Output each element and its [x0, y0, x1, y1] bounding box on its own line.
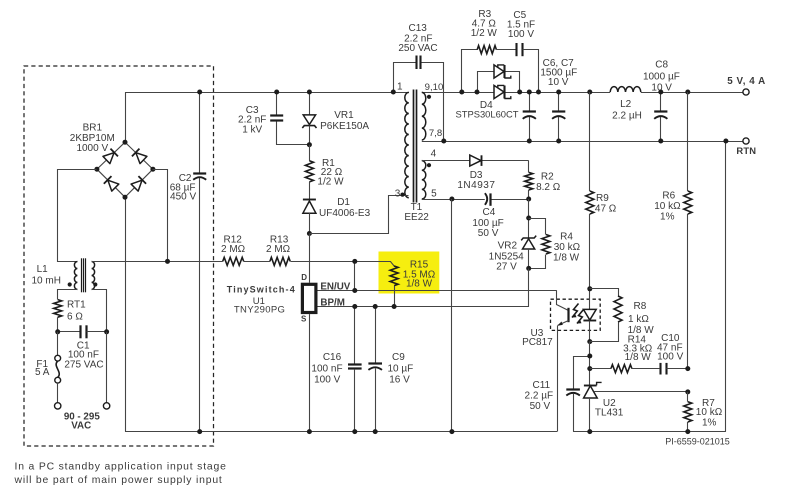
node pin5 return bottom: [449, 429, 454, 434]
svg-text:TL431: TL431: [595, 408, 624, 419]
svg-text:TNY290PG: TNY290PG: [234, 304, 285, 315]
node C8 top: [658, 90, 663, 95]
wire primary top rail: [125, 92, 409, 94]
node C10 right: [685, 366, 690, 371]
svg-text:RT1: RT1: [67, 300, 86, 311]
polarity dots L1: [68, 282, 98, 286]
wire pin5 line: [422, 199, 485, 201]
svg-text:16 V: 16 V: [389, 375, 410, 386]
terminal AC input left: [55, 403, 61, 409]
node VR2 top: [526, 216, 531, 221]
resistor R8: [590, 289, 619, 297]
capacitor C5: [496, 49, 515, 51]
node bridge corners: [94, 140, 155, 200]
transformer T1 secondary winding 4-5: [422, 161, 426, 199]
svg-text:10 µF: 10 µF: [388, 363, 414, 374]
node R14 tee: [587, 366, 592, 371]
svg-text:275 VAC: 275 VAC: [64, 359, 103, 370]
svg-text:PI-6559-021015: PI-6559-021015: [665, 436, 730, 446]
capacitor C9: [375, 307, 377, 364]
terminal 5V output: [743, 89, 749, 95]
node R9 top: [587, 90, 592, 95]
bridge diode upper-right: [132, 149, 147, 164]
node snubber right: [536, 90, 541, 95]
svg-text:8.2 Ω: 8.2 Ω: [536, 182, 561, 193]
dashed box input stage: [24, 66, 214, 446]
svg-text:30 kΩ: 30 kΩ: [554, 242, 581, 253]
bridge diode lower-left: [104, 176, 119, 191]
svg-text:2.2 µF: 2.2 µF: [525, 391, 554, 402]
transformer T1 primary winding: [405, 92, 409, 197]
svg-text:450 V: 450 V: [170, 192, 196, 203]
node C8 bottom: [658, 139, 663, 144]
node R6 top: [685, 90, 690, 95]
resistor R1: [309, 145, 311, 161]
node C6 top: [527, 90, 532, 95]
capacitor C11 branch: [574, 357, 590, 389]
svg-text:1 kΩ: 1 kΩ: [628, 314, 649, 325]
node LED top: [587, 286, 592, 291]
polarity dot pin9,10: [427, 95, 431, 99]
svg-text:7,8: 7,8: [429, 128, 442, 139]
svg-text:5: 5: [431, 188, 437, 199]
svg-text:2.2 µH: 2.2 µH: [612, 111, 642, 122]
resistor RT1: [54, 300, 62, 318]
svg-text:47 Ω: 47 Ω: [595, 203, 617, 214]
svg-text:STPS30L60CT: STPS30L60CT: [455, 109, 518, 120]
polarity dot pin3: [400, 193, 404, 197]
node C6 bottom: [527, 139, 532, 144]
svg-text:L1: L1: [37, 264, 49, 275]
node C7 top: [556, 90, 561, 95]
bridge BR1 diamond: [97, 142, 153, 197]
svg-text:2 MΩ: 2 MΩ: [221, 244, 246, 255]
inductor L2: [610, 87, 641, 92]
capacitor C4: [485, 193, 487, 205]
svg-text:4: 4: [431, 148, 437, 159]
capacitor C2: [199, 92, 201, 173]
svg-text:1000 µF: 1000 µF: [643, 71, 680, 82]
node C9: [373, 304, 378, 434]
node D4 anode: [475, 90, 480, 95]
capacitor C1: [58, 331, 80, 333]
diode D1: [303, 199, 316, 201]
node R7 bottom: [685, 429, 690, 434]
wire RT1 to C1 node: [57, 317, 59, 332]
node D1 bottom / pin3 junction: [307, 231, 312, 236]
svg-text:C8: C8: [655, 60, 668, 71]
node sense/EN-UV: [352, 259, 357, 293]
ic U1 TinySwitch-4: [302, 284, 316, 312]
bridge diode lower-right: [131, 176, 146, 191]
svg-text:5 A: 5 A: [35, 367, 50, 378]
svg-text:C11: C11: [532, 380, 550, 391]
wire sense line segments: [168, 261, 223, 263]
wire opto emitter to primary ground: [557, 326, 559, 432]
wire 5V rail left of L2: [422, 92, 610, 94]
svg-text:1 kV: 1 kV: [242, 125, 262, 136]
shunt regulator U2 TL431: [584, 385, 597, 387]
svg-text:VR2: VR2: [498, 241, 518, 252]
capacitor C7: [558, 92, 560, 111]
svg-text:UF4006-E3: UF4006-E3: [319, 208, 371, 219]
svg-text:D: D: [301, 273, 307, 282]
wire 5V rail right of L2: [641, 92, 743, 94]
svg-text:1000 V: 1000 V: [76, 143, 108, 154]
wire bridge left to L1: [58, 170, 97, 262]
inductor L1 core: [81, 258, 83, 292]
inductor L1 left winding: [74, 262, 77, 290]
wire TL431 ref line: [594, 391, 688, 393]
node pin1/C13: [391, 90, 396, 95]
wire bridge right to sense node: [153, 170, 168, 262]
node U1 source ground: [307, 429, 312, 434]
node ref junction: [685, 389, 690, 394]
svg-text:1%: 1%: [702, 418, 717, 429]
highlight box on R15: [379, 252, 440, 294]
svg-text:R6: R6: [662, 190, 675, 201]
svg-text:EE22: EE22: [404, 212, 429, 223]
opto light arrows: [572, 304, 579, 318]
transformer T1 secondary winding 9,10-7,8: [422, 92, 426, 140]
svg-text:VAC: VAC: [71, 420, 91, 431]
transformer T1 core: [413, 90, 415, 203]
bridge diode upper-left: [103, 149, 118, 164]
svg-text:C16: C16: [323, 352, 342, 363]
wire pin5 return to primary ground: [451, 199, 453, 432]
node C2 top: [197, 90, 202, 95]
svg-text:1/2 W: 1/2 W: [471, 28, 498, 39]
node C7 bottom: [556, 139, 561, 144]
resistor R7: [687, 392, 689, 402]
wire EN/UV to sense vertical: [354, 261, 356, 290]
node C2 bottom: [197, 429, 202, 434]
opto LED: [589, 289, 591, 309]
node pin5/C4 junctions: [449, 197, 531, 202]
resistor R13: [270, 257, 290, 265]
terminal RTN: [743, 138, 749, 144]
svg-text:1N4937: 1N4937: [457, 180, 495, 191]
node VR1/C3 junction: [307, 142, 312, 147]
node sense line left: [165, 259, 170, 264]
wire pin4 line: [422, 160, 470, 162]
svg-text:100 V: 100 V: [657, 351, 683, 362]
svg-text:BP/M: BP/M: [320, 298, 345, 309]
wire RTN down branch: [725, 141, 727, 432]
wire bridge bottom to ground: [125, 197, 127, 431]
svg-text:R8: R8: [634, 301, 647, 312]
wire RTN rail: [422, 141, 743, 143]
svg-text:P6KE150A: P6KE150A: [320, 121, 369, 132]
resistor R9: [589, 92, 591, 191]
svg-text:will be part of main power sup: will be part of main power supply input: [14, 475, 223, 486]
svg-text:C9: C9: [392, 352, 405, 363]
svg-text:9,10: 9,10: [425, 82, 444, 93]
wire L1 left bottom to RT1: [58, 290, 78, 300]
svg-text:2 MΩ: 2 MΩ: [266, 244, 291, 255]
wire D1 junction to U1 drain: [309, 234, 311, 283]
node RTN branch: [723, 139, 728, 144]
diode D3: [470, 155, 481, 166]
capacitor C6: [529, 92, 531, 111]
TVS VR1: [309, 92, 311, 115]
node C13 to RTN: [441, 139, 446, 144]
node TL431 anode ground: [587, 429, 592, 434]
svg-text:250 VAC: 250 VAC: [398, 43, 437, 54]
svg-text:100 V: 100 V: [508, 29, 534, 40]
resistor R14: [590, 368, 611, 370]
svg-text:10 mH: 10 mH: [31, 275, 60, 286]
node snubber left: [459, 90, 464, 95]
node C16: [352, 304, 357, 434]
svg-text:10 kΩ: 10 kΩ: [654, 201, 681, 212]
svg-text:VR1: VR1: [334, 110, 354, 121]
node C1 junctions: [55, 329, 109, 334]
wire R2 node down: [528, 199, 530, 238]
svg-text:1%: 1%: [660, 211, 675, 222]
diode D4 upper bypass loop: [478, 72, 495, 93]
node C11 tee: [587, 354, 592, 359]
svg-text:1/8 W: 1/8 W: [553, 252, 580, 263]
wire snubber left leg: [462, 50, 478, 93]
node D4 cathode: [517, 90, 522, 95]
resistor R12: [223, 257, 244, 265]
wire primary ground rail: [125, 431, 557, 433]
svg-text:50 V: 50 V: [530, 401, 551, 412]
svg-text:D1: D1: [337, 197, 350, 208]
fuse F1: [57, 332, 59, 356]
resistor R15: [390, 266, 398, 286]
capacitor C16: [354, 307, 356, 365]
wire pin3 lead: [310, 196, 409, 234]
inductor L1 right winding: [92, 262, 95, 290]
capacitor C13: [394, 63, 417, 93]
svg-text:5 V, 4 A: 5 V, 4 A: [727, 76, 766, 87]
svg-text:1/8 W: 1/8 W: [625, 352, 652, 363]
wire EN/UV line: [318, 290, 557, 292]
resistor R3: [477, 46, 496, 54]
node LED bottom: [587, 339, 592, 344]
opto phototransistor: [557, 291, 569, 311]
capacitor C10: [659, 363, 661, 375]
wire VR2 node to BP/M line: [318, 269, 529, 307]
wire L1 right top to sense node: [92, 261, 168, 263]
svg-text:27 V: 27 V: [496, 262, 517, 273]
node R15 bottom: [392, 304, 397, 309]
svg-text:RTN: RTN: [736, 145, 756, 156]
svg-text:3: 3: [395, 188, 401, 199]
wire U1 source to ground: [309, 314, 311, 432]
svg-text:1: 1: [397, 82, 403, 93]
resistor R6: [687, 92, 689, 191]
wire L1 right bottom down: [92, 290, 107, 332]
svg-text:1/8 W: 1/8 W: [406, 279, 433, 290]
polarity dot pin4: [427, 163, 431, 167]
node C3 top: [274, 90, 279, 95]
svg-text:R2: R2: [541, 172, 554, 183]
optocoupler U3 dashed box: [551, 299, 601, 330]
wire secondary ground rail: [573, 431, 726, 433]
svg-text:100 nF: 100 nF: [311, 363, 342, 374]
node VR2 bottom: [526, 266, 531, 271]
svg-text:6 Ω: 6 Ω: [67, 311, 83, 322]
svg-text:PC817: PC817: [522, 337, 553, 348]
svg-text:100 V: 100 V: [314, 375, 340, 386]
svg-text:C4: C4: [483, 207, 496, 218]
svg-text:L2: L2: [620, 99, 632, 110]
svg-text:C13: C13: [409, 23, 428, 34]
node VR1 top: [307, 90, 312, 95]
svg-text:TinySwitch-4: TinySwitch-4: [227, 284, 296, 294]
terminal AC input right: [106, 332, 108, 403]
svg-text:S: S: [301, 315, 307, 324]
resistor R4: [529, 219, 546, 235]
svg-text:10 V: 10 V: [548, 77, 569, 88]
wire bridge top to rail: [125, 92, 127, 142]
svg-text:1/2 W: 1/2 W: [317, 177, 344, 188]
svg-text:In a PC standby application in: In a PC standby application input stage: [15, 461, 227, 472]
capacitor C8: [660, 92, 662, 111]
diode D4 lower: [494, 85, 504, 98]
svg-text:50 V: 50 V: [478, 228, 499, 239]
capacitor C3: [276, 92, 278, 115]
wire LED node down: [589, 342, 591, 385]
zener VR2: [521, 236, 536, 241]
resistor R2: [528, 161, 530, 173]
svg-text:R4: R4: [560, 231, 573, 242]
